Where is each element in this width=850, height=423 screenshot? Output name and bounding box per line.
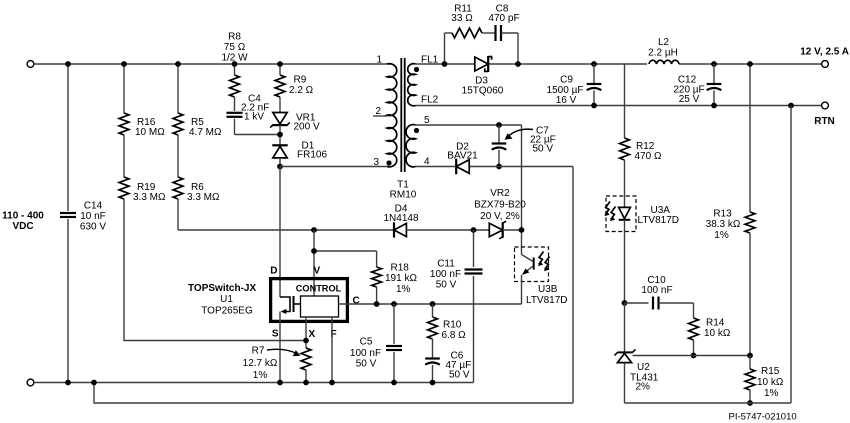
svg-text:C5: C5 xyxy=(360,337,373,348)
shunt regulator U2 TL431 xyxy=(624,303,626,352)
wire +12V sense column xyxy=(624,64,626,138)
arrow R7 callout xyxy=(267,349,297,353)
node R7 bottom xyxy=(303,380,309,386)
terminal 12V output xyxy=(822,61,829,68)
svg-text:1%: 1% xyxy=(714,230,729,241)
svg-text:10 kΩ: 10 kΩ xyxy=(704,328,731,339)
svg-text:VR2: VR2 xyxy=(490,188,510,199)
transformer secondary FL winding xyxy=(408,64,416,106)
svg-text:PI-5747-021010: PI-5747-021010 xyxy=(729,412,797,423)
svg-text:50 V: 50 V xyxy=(533,144,554,155)
svg-text:10 MΩ: 10 MΩ xyxy=(135,127,165,138)
wire lower return xyxy=(94,383,573,404)
node R15 bottom xyxy=(747,400,753,406)
node X junction xyxy=(303,338,309,344)
svg-text:V: V xyxy=(314,266,321,277)
svg-text:10 nF: 10 nF xyxy=(80,211,106,222)
diode D1 xyxy=(273,146,287,158)
svg-text:38.3 kΩ: 38.3 kΩ xyxy=(706,219,741,230)
svg-text:R14: R14 xyxy=(706,318,725,329)
svg-text:U3B: U3B xyxy=(538,284,558,295)
wire S pin xyxy=(279,312,281,383)
wire feedback right column xyxy=(790,106,792,404)
wire C4 to clamp node xyxy=(235,134,281,136)
zener VR1 xyxy=(279,97,281,113)
node F bottom xyxy=(329,380,335,386)
svg-text:RTN: RTN xyxy=(814,116,835,127)
capacitor C12 xyxy=(713,64,715,84)
svg-text:470 pF: 470 pF xyxy=(488,13,519,24)
node R16 top xyxy=(121,61,127,67)
svg-text:20 V, 2%: 20 V, 2% xyxy=(480,211,520,222)
svg-text:110 - 400: 110 - 400 xyxy=(2,211,44,222)
svg-text:C: C xyxy=(353,296,360,307)
wire C pin row xyxy=(339,303,522,305)
svg-text:FL2: FL2 xyxy=(421,95,439,106)
wire bias column xyxy=(521,125,523,248)
node C7 top xyxy=(496,122,502,128)
terminal DC input + xyxy=(27,61,34,68)
svg-text:BZX79-B20: BZX79-B20 xyxy=(474,200,526,211)
resistor R5 xyxy=(177,64,179,113)
svg-text:U1: U1 xyxy=(220,294,233,305)
wire REF row xyxy=(633,355,751,357)
node C10 tap xyxy=(622,300,628,306)
node FL1 snubber junction xyxy=(442,61,448,67)
node R9 top xyxy=(277,61,283,67)
svg-text:R10: R10 xyxy=(443,320,462,331)
svg-text:33 Ω: 33 Ω xyxy=(451,13,473,24)
svg-text:C14: C14 xyxy=(84,201,103,212)
svg-text:LTV817D: LTV817D xyxy=(526,295,568,306)
wire V pin column xyxy=(313,230,315,296)
svg-text:S: S xyxy=(272,329,279,340)
wire bias pin5 xyxy=(416,124,522,126)
node clamp mid xyxy=(279,125,281,145)
node C9 top xyxy=(591,61,597,67)
node R10 top xyxy=(430,301,436,307)
wire U3B emitter to C xyxy=(521,303,523,304)
capacitor C6 xyxy=(432,339,434,358)
diode D4 xyxy=(394,223,406,236)
wire line-sense row xyxy=(178,229,394,231)
svg-text:3: 3 xyxy=(373,157,379,168)
svg-text:R9: R9 xyxy=(294,75,307,86)
wire R6 to line-sense node xyxy=(177,199,179,230)
svg-text:U2: U2 xyxy=(637,362,650,373)
node lower return branch xyxy=(91,380,97,386)
svg-text:X: X xyxy=(309,329,316,340)
node R8 top xyxy=(232,61,238,67)
svg-text:L2: L2 xyxy=(658,37,670,48)
wire V to R18 xyxy=(314,250,377,252)
snubber right leg xyxy=(517,33,519,64)
svg-text:RM10: RM10 xyxy=(390,190,417,201)
bias polarity dot xyxy=(414,128,419,133)
svg-text:CONTROL: CONTROL xyxy=(296,283,342,293)
svg-text:630 V: 630 V xyxy=(80,222,106,233)
wire X pin xyxy=(305,317,307,348)
capacitor C9 xyxy=(593,64,595,84)
wire bias return column xyxy=(572,167,574,404)
resistor R19 xyxy=(123,135,125,177)
capacitor C8 xyxy=(494,25,496,41)
svg-text:3.3 MΩ: 3.3 MΩ xyxy=(133,192,166,203)
svg-text:470 Ω: 470 Ω xyxy=(635,151,662,162)
resistor R10 xyxy=(432,304,434,317)
node C12 bottom xyxy=(711,103,717,109)
node C5 bottom xyxy=(391,380,397,386)
node V pin junction xyxy=(311,227,317,233)
optocoupler U3B phototransistor xyxy=(515,247,549,282)
svg-text:6.8 Ω: 6.8 Ω xyxy=(442,330,467,341)
svg-text:50 V: 50 V xyxy=(436,280,457,291)
svg-text:10 kΩ: 10 kΩ xyxy=(757,377,784,388)
svg-text:D: D xyxy=(270,266,277,277)
pin 3 wire xyxy=(280,166,387,168)
node C14 bottom xyxy=(65,380,71,386)
wire bottom rail xyxy=(34,382,474,384)
node R18 bottom xyxy=(374,301,380,307)
svg-text:R7: R7 xyxy=(252,346,265,357)
node S bottom xyxy=(277,380,283,386)
node drain xyxy=(279,158,281,167)
optocoupler U3A LED xyxy=(606,196,636,232)
primary polarity dot xyxy=(386,160,391,165)
svg-text:4.7 MΩ: 4.7 MΩ xyxy=(189,127,222,138)
wire drain column xyxy=(279,167,281,298)
svg-text:R13: R13 xyxy=(713,209,732,220)
svg-text:100 nF: 100 nF xyxy=(350,348,381,359)
resistor R18 xyxy=(376,251,378,267)
node C6 bottom xyxy=(430,380,436,386)
svg-text:50 V: 50 V xyxy=(356,359,377,370)
node C7 bottom xyxy=(496,164,502,170)
svg-text:1%: 1% xyxy=(253,370,268,381)
node D3 cathode junction xyxy=(515,61,521,67)
capacitor C10 xyxy=(625,302,649,304)
svg-text:R18: R18 xyxy=(391,263,410,274)
diode D2 xyxy=(456,160,469,174)
node VR2 cathode xyxy=(519,227,525,233)
svg-text:15TQ060: 15TQ060 xyxy=(462,86,504,97)
svg-text:2: 2 xyxy=(375,106,381,117)
node C9 bottom xyxy=(591,103,597,109)
svg-text:191 kΩ: 191 kΩ xyxy=(385,273,417,284)
resistor R14 xyxy=(693,303,695,318)
svg-text:16 V: 16 V xyxy=(556,95,577,106)
resistor R12 xyxy=(620,138,630,160)
svg-text:C9: C9 xyxy=(560,75,573,86)
transformer core xyxy=(400,58,402,172)
resistor R15 xyxy=(749,356,751,370)
svg-text:R8: R8 xyxy=(228,32,241,43)
svg-text:75 Ω: 75 Ω xyxy=(224,42,246,53)
svg-text:TOPSwitch-JX: TOPSwitch-JX xyxy=(188,283,256,294)
secondary FL polarity dot xyxy=(414,67,419,72)
wire VR2 to bias column xyxy=(503,229,522,231)
terminal DC input - xyxy=(27,379,34,386)
svg-text:FR106: FR106 xyxy=(297,150,327,161)
U1 MOSFET xyxy=(280,297,290,312)
svg-text:1 kV: 1 kV xyxy=(244,112,264,123)
svg-text:2%: 2% xyxy=(636,382,651,393)
diode D3 xyxy=(475,57,488,71)
capacitor C5 xyxy=(393,304,395,344)
resistor R11 xyxy=(445,32,453,34)
resistor R6 xyxy=(177,135,179,177)
terminal RTN xyxy=(822,102,829,109)
snubber left leg xyxy=(444,33,446,64)
wire bias pin4 xyxy=(416,166,457,168)
svg-text:1%: 1% xyxy=(764,388,779,399)
svg-text:1%: 1% xyxy=(396,284,411,295)
arrow C7 callout xyxy=(508,129,533,136)
node C14 top xyxy=(65,61,71,67)
svg-text:R15: R15 xyxy=(761,366,780,377)
svg-text:200 V: 200 V xyxy=(294,122,320,133)
wire feedback bottom row xyxy=(625,402,792,404)
node R14 bottom xyxy=(691,353,697,359)
node C11 top xyxy=(471,227,477,233)
svg-text:1: 1 xyxy=(376,55,382,66)
transformer bias winding xyxy=(406,125,415,167)
svg-text:C11: C11 xyxy=(437,259,455,270)
capacitor C14 xyxy=(67,64,69,211)
svg-text:3.3 MΩ: 3.3 MΩ xyxy=(187,192,220,203)
inductor L2 xyxy=(649,60,679,64)
resistor R16 xyxy=(123,64,125,113)
wire R19 to X pin xyxy=(124,199,306,341)
svg-text:100 nF: 100 nF xyxy=(641,285,672,296)
pin 2 stub xyxy=(373,115,387,117)
transformer T1 primary winding xyxy=(387,63,392,65)
wire D2 to return column xyxy=(470,166,573,168)
svg-text:VDC: VDC xyxy=(12,221,33,232)
resistor R7 xyxy=(301,348,311,370)
svg-text:BAV21: BAV21 xyxy=(447,151,478,162)
node +12V R13 tap xyxy=(747,61,753,67)
wire FL2 / RTN rail xyxy=(416,105,822,107)
wire D4 to VR2 xyxy=(406,229,489,231)
svg-text:50 V: 50 V xyxy=(449,370,470,381)
U1 control block xyxy=(301,296,339,317)
wire R13 column xyxy=(749,64,751,212)
svg-text:12 V, 2.5 A: 12 V, 2.5 A xyxy=(800,47,849,58)
svg-text:1N4148: 1N4148 xyxy=(383,213,418,224)
svg-text:TOP265EG: TOP265EG xyxy=(201,306,253,317)
resistor R13 xyxy=(745,212,755,233)
svg-text:LTV817D: LTV817D xyxy=(638,215,680,226)
resistor R9 xyxy=(279,64,281,75)
svg-text:100 nF: 100 nF xyxy=(430,269,461,280)
capacitor C4 xyxy=(234,97,236,111)
node C5 top xyxy=(391,301,397,307)
node C12 top xyxy=(711,61,717,67)
node R13 bottom / REF xyxy=(747,353,753,359)
wire top rail xyxy=(34,63,387,65)
svg-text:12.7 kΩ: 12.7 kΩ xyxy=(243,358,278,369)
svg-text:2.2 Ω: 2.2 Ω xyxy=(289,85,314,96)
capacitor C11 xyxy=(473,230,475,267)
svg-text:2.2 µH: 2.2 µH xyxy=(648,48,678,59)
svg-text:25 V: 25 V xyxy=(679,94,700,105)
resistor R8 xyxy=(234,64,236,75)
zener VR2 xyxy=(489,223,502,237)
node RTN feedback tap xyxy=(788,103,794,109)
IC U1 TOPSwitch-JX xyxy=(271,279,348,322)
node R5 top xyxy=(175,61,181,67)
wire F pin xyxy=(331,317,333,383)
wire FL1 to output xyxy=(416,63,475,65)
capacitor C7 xyxy=(498,125,500,144)
